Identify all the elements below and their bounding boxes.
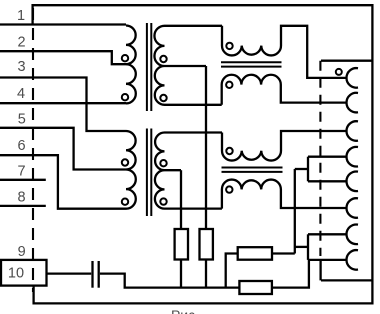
svg-text:Рис.: Рис. xyxy=(171,307,199,314)
svg-text:7: 7 xyxy=(17,164,25,180)
svg-text:3: 3 xyxy=(17,59,25,75)
svg-text:9: 9 xyxy=(18,244,26,260)
svg-text:5: 5 xyxy=(18,112,26,128)
svg-text:6: 6 xyxy=(17,138,25,154)
svg-text:2: 2 xyxy=(17,35,25,51)
svg-text:1: 1 xyxy=(17,8,25,24)
svg-text:10: 10 xyxy=(8,266,24,282)
svg-text:4: 4 xyxy=(17,86,25,102)
svg-text:8: 8 xyxy=(17,190,25,206)
